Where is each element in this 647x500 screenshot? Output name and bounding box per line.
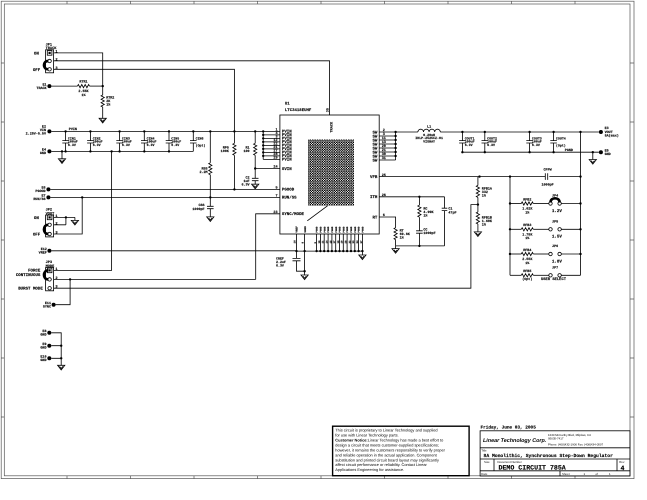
JP2 shunt on pins 2-3 xyxy=(44,225,48,234)
terminal E3 (VOUT) xyxy=(599,130,603,134)
capacitor C2 xyxy=(252,178,259,180)
svg-text:1.8V: 1.8V xyxy=(552,259,563,264)
resistor RTR1 xyxy=(78,85,90,88)
op-amp U1 LTC3418EUHF outline xyxy=(280,115,379,234)
junction RUN/SS node xyxy=(209,196,211,198)
wire JP3 pin2 line (SYNC/MODE net) xyxy=(54,278,256,280)
svg-text:Document Number: Document Number xyxy=(498,460,522,464)
wire U1 PVIN pin 4 xyxy=(263,134,280,136)
wire RFB3 to jumper JP5 xyxy=(533,228,549,230)
svg-text:33: 33 xyxy=(352,240,355,244)
junction COUT2 top xyxy=(484,131,486,133)
svg-text:6.3V: 6.3V xyxy=(465,143,473,147)
capacitor CIN4 xyxy=(141,131,157,151)
capacitor COUT3 xyxy=(526,132,542,152)
wire ITH to RC xyxy=(418,197,420,205)
junction right rail RFB4 xyxy=(579,253,581,255)
wire RFB4 to jumper JP6 xyxy=(533,253,549,255)
capacitor COUT2 xyxy=(482,132,498,152)
svg-text:GND: GND xyxy=(40,151,46,156)
wire PGOOD line E6 to U1 pin 5 xyxy=(50,188,280,190)
junction left rail RFB3 xyxy=(509,228,511,230)
capacitor CFFW xyxy=(545,173,547,180)
wire gnd stem (input bus) xyxy=(61,151,63,158)
node FB tap xyxy=(477,203,479,205)
junction CIN2 top xyxy=(89,130,91,132)
svg-text:(Opt): (Opt) xyxy=(522,277,532,282)
resistor RPG xyxy=(233,143,236,155)
wire U1 PGND pin 32 xyxy=(350,234,352,251)
wire U1 SW pin 30 xyxy=(379,155,395,157)
junction SW bus row 5 xyxy=(394,147,396,149)
svg-text:SW: SW xyxy=(372,158,377,163)
wire R1 to SVIN node xyxy=(254,155,256,168)
terminal E9 (GND) xyxy=(47,344,51,348)
capacitor CC xyxy=(416,231,423,233)
svg-text:PGND: PGND xyxy=(342,226,345,233)
resistor RFB5 xyxy=(521,274,533,277)
wire divider row RFB5 xyxy=(510,274,521,276)
capacitor CIN1 xyxy=(62,131,78,151)
junction PGND 11 xyxy=(354,250,356,252)
wire U1 PGND pin 10 xyxy=(319,234,321,251)
wire JP4 to right rail xyxy=(561,203,580,205)
node SVIN xyxy=(254,167,256,169)
junction ITH/RC xyxy=(418,196,420,198)
junction CFFW/right rail xyxy=(579,175,581,177)
svg-text:14: 14 xyxy=(326,240,329,244)
junction PGND 12 xyxy=(357,250,359,252)
junction E11/SYNC line xyxy=(69,278,71,280)
svg-text:RUN/SS: RUN/SS xyxy=(33,197,45,202)
wire U1 PGND pin 14 xyxy=(327,234,329,251)
svg-text:LTC3418EUHF: LTC3418EUHF xyxy=(285,108,312,113)
junction CIN3 bottom xyxy=(118,150,120,152)
wire JP5 to right rail xyxy=(561,228,580,230)
wire RFB1A to tap xyxy=(477,197,479,204)
wire RTR1 to node xyxy=(90,85,103,87)
terminal E4 (GND) xyxy=(47,149,51,153)
svg-text:JP5: JP5 xyxy=(552,219,558,224)
wire L1 to VOUT bus / E3 xyxy=(440,131,599,133)
resistor RSS xyxy=(209,163,212,175)
svg-text:100: 100 xyxy=(243,149,249,154)
svg-text:OFF: OFF xyxy=(33,233,41,238)
wire JP1 pin3 to VIN rail xyxy=(54,69,235,131)
svg-text:PGND: PGND xyxy=(327,226,330,233)
resistor RFB2 xyxy=(521,202,533,205)
wire U1 PGND pin 33 xyxy=(354,234,356,251)
terminal E1 (TRACK) xyxy=(47,84,51,88)
junction JP3 pin1 / GND bus xyxy=(110,150,112,152)
junction RSS top xyxy=(209,130,211,132)
capacitor CSS xyxy=(207,206,214,208)
wire U1 PGND pin 18 xyxy=(339,234,341,251)
wire divider row RFB2 xyxy=(510,203,521,205)
junction SW bus row 2 xyxy=(394,135,396,137)
ground (CSS) xyxy=(207,217,214,222)
svg-text:JP7: JP7 xyxy=(552,265,558,270)
junction PGND 9 xyxy=(346,250,348,252)
svg-text:VFB: VFB xyxy=(370,175,378,180)
junction PGND 10 xyxy=(350,250,352,252)
junction COUT1 top xyxy=(461,131,463,133)
junction SW bus row 6 xyxy=(394,151,396,153)
ground (E8-E10) xyxy=(58,365,65,370)
svg-text:PGND: PGND xyxy=(339,226,342,233)
svg-text:26: 26 xyxy=(382,193,386,198)
wire divider row RFB4 xyxy=(510,253,521,255)
wire U1 PVIN pin 21 xyxy=(263,148,280,150)
resistor RFB4 xyxy=(521,252,533,255)
svg-text:DEMO CIRCUIT 785A: DEMO CIRCUIT 785A xyxy=(499,464,566,471)
ground (SGND) xyxy=(301,275,308,280)
capacitor COUT4 xyxy=(550,132,566,152)
svg-text:PVIN: PVIN xyxy=(69,127,77,132)
wire VIN to RPG xyxy=(233,131,235,143)
svg-text:2: 2 xyxy=(55,221,57,226)
resistor RFB3 xyxy=(521,228,533,231)
svg-text:SYNC: SYNC xyxy=(43,305,51,310)
svg-text:of: of xyxy=(596,472,599,476)
wire VREF node to CREF xyxy=(296,251,298,258)
svg-text:CONTINUOUS: CONTINUOUS xyxy=(16,273,41,278)
junction left rail RFB2 xyxy=(509,202,511,204)
junction PGND 13 xyxy=(361,250,363,252)
svg-text:2.2M: 2.2M xyxy=(199,170,207,175)
ground (JP2) xyxy=(71,220,78,225)
svg-text:FORCE: FORCE xyxy=(28,269,41,274)
capacitor CIN2 xyxy=(87,131,103,151)
wire RFB5 to jumper JP7 xyxy=(533,274,549,276)
junction PGND 4 xyxy=(327,250,329,252)
junction PGND 5 xyxy=(331,250,333,252)
junction PVIN bus row 4 xyxy=(262,141,264,143)
wire RC to CC xyxy=(418,217,420,231)
svg-text:(Opt): (Opt) xyxy=(196,144,206,148)
resistor R1 xyxy=(254,143,257,155)
svg-text:10: 10 xyxy=(318,240,321,244)
junction PVIN bus row 8 xyxy=(262,155,264,157)
jumper JP4 xyxy=(549,194,562,206)
svg-text:95035-7417: 95035-7417 xyxy=(548,437,564,441)
junction SW bus row 3 xyxy=(394,139,396,141)
wire U1 ITH pin 26 line xyxy=(379,196,444,198)
wire RFB1A column xyxy=(477,177,479,186)
wire U1 PGND pin 15 xyxy=(331,234,333,251)
wire SVIN node to U1 pin 24 xyxy=(255,168,280,170)
wire VFB line to CFFW xyxy=(510,176,545,178)
svg-text:VISHAY: VISHAY xyxy=(423,140,435,144)
wire U1 PVIN pin 3 xyxy=(263,137,280,139)
ground (RFB1B) xyxy=(474,232,481,237)
junction SGND/PGND bus xyxy=(303,250,305,252)
wire U1 SW pin 2 xyxy=(379,131,395,133)
wire U1 SW pin 11 xyxy=(379,139,395,141)
junction R1 top / VIN xyxy=(254,130,256,132)
svg-text:6: 6 xyxy=(383,213,385,218)
svg-text:L1: L1 xyxy=(427,124,431,129)
jumper JP1 (TRACK select) xyxy=(33,42,59,72)
svg-text:PGOOD: PGOOD xyxy=(282,188,295,193)
junction PGND/gnd xyxy=(592,151,594,153)
svg-text:Size: Size xyxy=(484,460,490,464)
notice box xyxy=(333,426,470,476)
wire feedback left rail xyxy=(509,177,511,276)
svg-text:Rev: Rev xyxy=(619,460,625,464)
svg-text:GND: GND xyxy=(40,346,46,351)
junction CIN4 top xyxy=(143,130,145,132)
junction COUT1 bottom xyxy=(461,151,463,153)
svg-text:6.3V: 6.3V xyxy=(487,143,495,147)
title block xyxy=(480,425,630,476)
wire compensation gnd rail xyxy=(396,245,445,247)
svg-text:1000pF: 1000pF xyxy=(192,207,204,212)
wire RT to gnd rail xyxy=(395,240,397,246)
svg-text:ON: ON xyxy=(34,51,39,56)
svg-text:1.2V: 1.2V xyxy=(552,209,563,214)
junction CIN5 top xyxy=(168,130,170,132)
jumper JP5 xyxy=(549,219,562,231)
svg-text:SVIN: SVIN xyxy=(282,167,292,172)
svg-text:SYNC/MODE: SYNC/MODE xyxy=(282,212,305,217)
junction PVIN bus row 3 xyxy=(262,137,264,139)
svg-text:JP6: JP6 xyxy=(552,244,558,249)
svg-text:31: 31 xyxy=(382,156,386,161)
wire VIN to RSS xyxy=(209,131,211,162)
svg-text:RTR1: RTR1 xyxy=(79,79,87,84)
ground (C2) xyxy=(252,184,259,189)
wire divider row RFB3 xyxy=(510,228,521,230)
terminal E11 (SYNC) xyxy=(52,303,56,307)
svg-text:CFFW: CFFW xyxy=(544,168,553,173)
junction PGND 2 xyxy=(319,250,321,252)
junction CIN6 top xyxy=(192,130,194,132)
svg-text:6.3V: 6.3V xyxy=(171,143,179,147)
wire PGND bus gnd stem xyxy=(361,251,363,255)
wire JP3 pin3 to feedback divider tap xyxy=(54,205,478,289)
ground (output) xyxy=(589,160,596,165)
svg-text:RFB5: RFB5 xyxy=(523,269,531,274)
wire node to RTR2 xyxy=(102,86,104,95)
wire C2 gnd stem xyxy=(254,181,256,185)
wire RUN/SS line E7 to U1 pin 7 xyxy=(50,196,280,198)
junction PVIN bus row 2 xyxy=(262,134,264,136)
wire CFFW to right rail xyxy=(549,176,580,178)
junction PGND 3 xyxy=(323,250,325,252)
resistor RC xyxy=(418,205,421,217)
svg-text:Phone: (408)432-1900 Fax: (408: Phone: (408)432-1900 Fax: (408)434-0507 xyxy=(548,443,604,447)
wire JP1 pin2 to U1 TRACK pin xyxy=(54,61,330,115)
wire output gnd stem xyxy=(592,152,594,159)
wire output PGND bus xyxy=(462,151,599,153)
wire GND bus xyxy=(51,150,193,152)
jumper JP6 xyxy=(549,244,562,256)
wire JP1 pin1 to RTR1/RTR2 node xyxy=(54,53,103,86)
wire E1 to RTR1 xyxy=(51,85,77,87)
junction COUT4 top xyxy=(552,131,554,133)
JP1 shunt on pins 2-3 xyxy=(44,61,48,69)
wire U1 PGND pin 19 xyxy=(342,234,344,251)
svg-text:Applications Engineering for a: Applications Engineering for assistance. xyxy=(335,467,404,472)
junction CIN4 bottom xyxy=(143,150,145,152)
wire RUN/SS to CSS xyxy=(209,197,211,206)
svg-text:USER SELECT: USER SELECT xyxy=(541,277,567,282)
svg-text:6.3V: 6.3V xyxy=(241,183,250,188)
ground (input bus) xyxy=(58,159,65,164)
svg-text:U1: U1 xyxy=(285,102,290,107)
wire VIN bus xyxy=(51,130,263,132)
svg-text:2: 2 xyxy=(55,57,57,62)
svg-text:6.3V: 6.3V xyxy=(276,263,284,267)
svg-text:25: 25 xyxy=(382,173,386,178)
inductor L1 xyxy=(418,129,440,132)
wire ITH end to C1 xyxy=(444,197,446,208)
svg-text:ON: ON xyxy=(34,216,39,221)
junction JP2/RUN-SS xyxy=(81,196,83,198)
svg-text:VREF: VREF xyxy=(296,226,299,233)
svg-text:PGOOD: PGOOD xyxy=(35,189,45,194)
junction PGND 8 xyxy=(342,250,344,252)
junction E9 xyxy=(60,345,62,347)
svg-text:GND: GND xyxy=(605,152,611,157)
junction PVIN bus row 6 xyxy=(262,148,264,150)
wire U1 PGND pin 9 xyxy=(316,234,318,251)
svg-text:COUT4: COUT4 xyxy=(556,136,566,140)
junction right rail RFB3 xyxy=(579,228,581,230)
junction PVIN bus row 5 xyxy=(262,144,264,146)
svg-text:29: 29 xyxy=(273,156,277,161)
svg-text:1.5V: 1.5V xyxy=(552,235,563,240)
terminal E5 (GND) xyxy=(599,150,603,154)
wire PVIN pin bus xyxy=(262,131,264,159)
svg-text:SGND: SGND xyxy=(304,226,307,233)
svg-text:PGND: PGND xyxy=(323,226,326,233)
svg-text:GND: GND xyxy=(40,358,46,363)
junction PGND 1 xyxy=(315,250,317,252)
capacitor CIN3 xyxy=(116,131,132,151)
wire C1 to rail xyxy=(444,211,446,246)
svg-text:Friday, June 03, 2005: Friday, June 03, 2005 xyxy=(481,425,537,431)
svg-text:8A Monolithic, Synchronous Ste: 8A Monolithic, Synchronous Step-Down Reg… xyxy=(484,453,614,459)
svg-text:PGND: PGND xyxy=(358,226,361,233)
svg-text:PGND: PGND xyxy=(331,226,334,233)
svg-text:23: 23 xyxy=(273,210,277,215)
capacitor CREF xyxy=(293,258,301,260)
wire RSS to RUN/SS line xyxy=(209,175,211,198)
wire U1 SGND pin 8 xyxy=(304,234,306,275)
svg-text:6.3V: 6.3V xyxy=(122,143,130,147)
svg-text:RFB2: RFB2 xyxy=(523,197,531,202)
svg-text:34: 34 xyxy=(356,240,359,244)
svg-text:16: 16 xyxy=(294,240,297,244)
wire U1 PVIN pin 1 xyxy=(263,130,280,132)
node VREF/CREF xyxy=(295,250,297,252)
wire U1 PGND pin 34 xyxy=(358,234,360,251)
wire U1 PVIN pin 28 xyxy=(263,155,280,157)
wire tap to RFB1B xyxy=(477,205,479,212)
junction gnd stem xyxy=(61,150,63,152)
ground (PGND bus) xyxy=(359,255,366,260)
junction right rail RFB2 xyxy=(579,202,581,204)
capacitor CIN5 xyxy=(166,131,182,151)
svg-text:28: 28 xyxy=(345,240,348,244)
svg-text:2.25V-5.5V: 2.25V-5.5V xyxy=(26,132,47,137)
svg-text:1000pF: 1000pF xyxy=(541,182,553,187)
junction JP2 pin1/2 xyxy=(65,216,67,218)
junction PGND 6 xyxy=(335,250,337,252)
resistor RTR2 xyxy=(101,95,104,107)
jumper JP7 xyxy=(549,265,562,277)
junction CIN2 bottom xyxy=(89,150,91,152)
svg-text:37: 37 xyxy=(360,240,363,244)
JP4 shunt installed xyxy=(551,198,560,202)
capacitor C1 xyxy=(442,208,448,210)
wire U1 PGND pin 37 xyxy=(361,234,363,251)
junction PGND 7 xyxy=(338,250,340,252)
svg-text:100K: 100K xyxy=(221,149,230,154)
svg-text:11: 11 xyxy=(322,240,325,244)
svg-text:4: 4 xyxy=(621,465,625,472)
svg-text:VREF: VREF xyxy=(39,251,47,256)
svg-text:ITH: ITH xyxy=(370,195,378,200)
svg-text:PGND: PGND xyxy=(335,226,338,233)
wire JP3 pin1 to GND bus xyxy=(54,151,112,270)
junction CIN1 top xyxy=(64,130,66,132)
wire VIN to R1 xyxy=(254,131,256,143)
wire U1 VFB pin 25 line xyxy=(379,176,510,178)
wire U1 SW pin 31 xyxy=(379,159,395,161)
capacitor CIN6 xyxy=(190,131,206,151)
svg-text:47pF: 47pF xyxy=(448,210,456,215)
svg-text:Title: Title xyxy=(481,448,487,452)
terminal E6 (PGOOD) xyxy=(46,187,50,191)
junction VFB/divider rail xyxy=(509,175,511,177)
junction PVIN bus row 7 xyxy=(262,151,264,153)
wire comp rail gnd stem xyxy=(395,246,397,249)
wire U1 SW pin 21 xyxy=(379,151,395,153)
svg-text:PGND: PGND xyxy=(350,226,353,233)
svg-text:19: 19 xyxy=(341,240,344,244)
wire RPG to PGOOD line xyxy=(233,155,235,189)
svg-text:17: 17 xyxy=(333,240,336,244)
wire JP2 gnd stem xyxy=(74,217,76,220)
junction CIN3 top xyxy=(118,130,120,132)
junction SGND/CREF xyxy=(303,270,305,272)
svg-text:18: 18 xyxy=(337,240,340,244)
svg-text:5: 5 xyxy=(275,186,277,191)
svg-text:8A(max): 8A(max) xyxy=(605,134,619,139)
wire SW pin bus xyxy=(395,132,397,160)
svg-text:TRACK: TRACK xyxy=(329,121,334,133)
wire RFB1B gnd stem xyxy=(477,224,479,232)
terminal E10 (GND) xyxy=(47,356,51,360)
wire JP2 pin3 to RUN/SS xyxy=(54,197,83,234)
junction COUT4 bottom xyxy=(552,151,554,153)
wire U1 SW pin 3 xyxy=(379,135,395,137)
wire U1 PVIN pin 29 xyxy=(263,158,280,160)
svg-text:PGND: PGND xyxy=(362,226,365,233)
wire JP6 to right rail xyxy=(561,253,580,255)
svg-text:RFB4: RFB4 xyxy=(523,248,531,253)
wire RFB2 to jumper JP4 xyxy=(533,203,549,205)
svg-text:15: 15 xyxy=(329,240,332,244)
wire JP7 to right rail xyxy=(561,274,580,276)
wire U1 PVIN pin 27 xyxy=(263,151,280,153)
svg-text:35: 35 xyxy=(325,108,330,112)
junction SW bus row 4 xyxy=(394,143,396,145)
svg-text:PGND: PGND xyxy=(320,226,323,233)
